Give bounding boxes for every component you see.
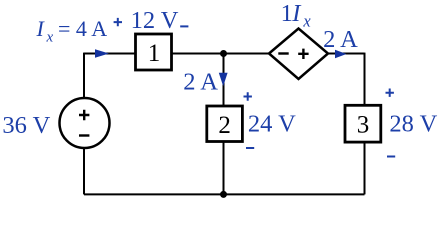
node junction bottom [220,191,227,198]
element box 1 [136,34,172,70]
svg-text:36 V: 36 V [2,112,50,139]
svg-text:3: 3 [357,111,370,138]
label 36 V [2,112,50,139]
current arrow Ix (right) [95,49,109,58]
svg-text:1: 1 [148,40,161,67]
wire left vertical upper [83,53,85,99]
current arrow 2A down [219,73,228,87]
polarity minus for 24V [246,147,254,149]
svg-text:28 V: 28 V [389,110,437,137]
label 12 V [131,7,179,34]
svg-text:I: I [36,16,46,41]
label Ix = 4 A [36,16,108,46]
wire bottom horizontal [84,193,365,195]
polarity plus for 12V [114,18,122,26]
svg-text:12 V: 12 V [131,7,179,34]
svg-text:2: 2 [218,112,231,139]
polarity minus for 12V [180,25,188,27]
wire right vertical lower [364,142,366,194]
element box 2 [207,106,243,142]
wire middle vertical upper [223,54,225,107]
current arrow 2A right [335,50,347,59]
svg-text:x: x [46,30,54,46]
svg-text:x: x [302,12,311,31]
voltage source 36V [60,98,110,148]
wire top right horizontal [328,53,365,55]
svg-text:2 A: 2 A [183,69,218,96]
dependent source 1Ix diamond [269,29,328,80]
svg-text:= 4 A: = 4 A [58,16,107,41]
node junction top [220,50,227,57]
polarity plus for 24V [244,92,252,100]
wire top-left horizontal [84,53,136,55]
label 2 A (right) [323,26,358,53]
wire left vertical lower [83,148,85,195]
polarity minus for 28V [387,156,395,158]
wire right vertical upper [364,53,366,106]
svg-text:I: I [291,0,302,27]
svg-text:24 V: 24 V [248,111,296,138]
wire top middle horizontal [172,53,270,55]
label 2 A (middle) [183,69,218,96]
wire middle vertical lower [223,142,225,195]
label 24 V [248,111,296,138]
svg-text:1: 1 [281,0,293,27]
label 1Ix [281,0,312,31]
element box 3 [345,105,381,142]
svg-text:2 A: 2 A [323,26,358,53]
label 28 V [389,110,437,137]
polarity plus for 28V [386,89,394,97]
